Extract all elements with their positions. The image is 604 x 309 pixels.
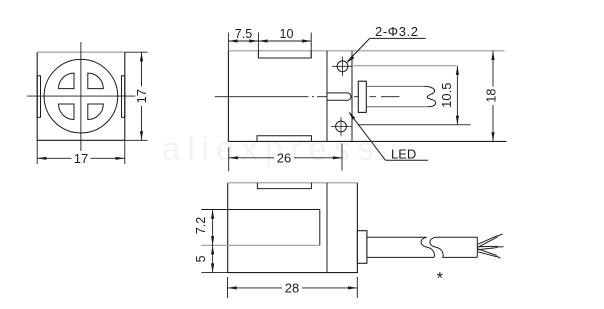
front view: vertical centerline — [80, 42, 82, 151]
wire bottom — [478, 249, 501, 258]
wire top — [478, 234, 503, 247]
bottom view: rear section divider — [326, 183, 328, 273]
svg-text:17: 17 — [74, 151, 88, 166]
bottom view: top slot — [257, 183, 311, 189]
side view: upper mounting hole — [332, 57, 353, 77]
svg-text:5: 5 — [194, 255, 208, 262]
front view: sensing face circle — [44, 59, 118, 133]
bottom view: window top edge — [228, 209, 320, 211]
dimension 7.2 — [201, 210, 227, 273]
dimension 17 (front view height) — [125, 52, 148, 140]
side view: plate inner top line — [352, 65, 456, 67]
front view: upper-left coil quadrant — [59, 73, 75, 89]
bottom view: window right edge — [319, 210, 321, 246]
front view: lower-right coil quadrant — [88, 104, 104, 120]
side view: body left edge — [227, 51, 229, 142]
svg-text:26: 26 — [277, 151, 291, 166]
cable break squiggle 1 — [421, 237, 434, 257]
bottom view: cable bottom line — [367, 256, 477, 258]
dimension 5 — [211, 245, 214, 254]
front view: left mounting tab — [37, 76, 40, 118]
front view: right mounting tab — [122, 76, 125, 118]
side view: screw shaft top line — [366, 85, 424, 87]
svg-text:28: 28 — [285, 281, 299, 296]
side view: shaft break squiggle — [425, 86, 436, 106]
dimension 10.5 — [456, 66, 458, 125]
svg-text:18: 18 — [485, 89, 499, 103]
svg-text:10.5: 10.5 — [439, 83, 454, 108]
front view: body square outline — [37, 52, 125, 140]
side view: bottom slot — [257, 136, 311, 142]
dimension 7.5 — [228, 33, 311, 59]
front view: horizontal centerline — [27, 95, 139, 97]
side view: screw head — [358, 81, 366, 112]
dimension 10 — [258, 39, 267, 42]
front view: lower-left coil quadrant — [59, 104, 75, 120]
label LED with leader — [386, 159, 429, 161]
side view: bottom edge (body + flange + plate) — [228, 140, 506, 142]
wire middle — [478, 246, 504, 250]
bottom view: window bottom edge (gray, extends left as extension) — [201, 244, 319, 246]
side view: horizontal centerline (dash-dot) — [215, 96, 400, 98]
svg-text:7.5: 7.5 — [235, 27, 252, 41]
dimension 17 (front view width) — [37, 140, 125, 164]
side view: LED lens tongue — [327, 93, 351, 100]
side view: top slot — [258, 51, 311, 58]
svg-text:LED: LED — [391, 147, 416, 162]
dimension 26 — [229, 144, 342, 172]
side view: lower mounting hole — [331, 117, 352, 136]
bottom view: cable top line — [367, 236, 477, 238]
dimension 28 — [228, 277, 358, 298]
front view: upper-right coil quadrant — [88, 73, 104, 89]
svg-text:17: 17 — [134, 89, 149, 103]
side view: top edge (body + flange + plate) — [228, 50, 504, 52]
svg-text:7.2: 7.2 — [194, 217, 208, 234]
bottom view: cable gland — [357, 231, 367, 264]
side view: body/flange boundary — [326, 51, 328, 142]
cable break squiggle 2 — [430, 237, 443, 257]
bottom view: body outline — [228, 183, 358, 273]
svg-text:10: 10 — [280, 27, 294, 41]
svg-text:*: * — [437, 270, 444, 288]
side view: plate inner bottom line — [358, 124, 471, 126]
dimension 18 — [492, 51, 494, 142]
bottom view: cable end — [476, 237, 478, 257]
side view: screw shaft bottom line — [366, 106, 428, 108]
side view: flange right edge — [351, 51, 353, 142]
svg-text:2-Φ3.2: 2-Φ3.2 — [375, 24, 419, 39]
